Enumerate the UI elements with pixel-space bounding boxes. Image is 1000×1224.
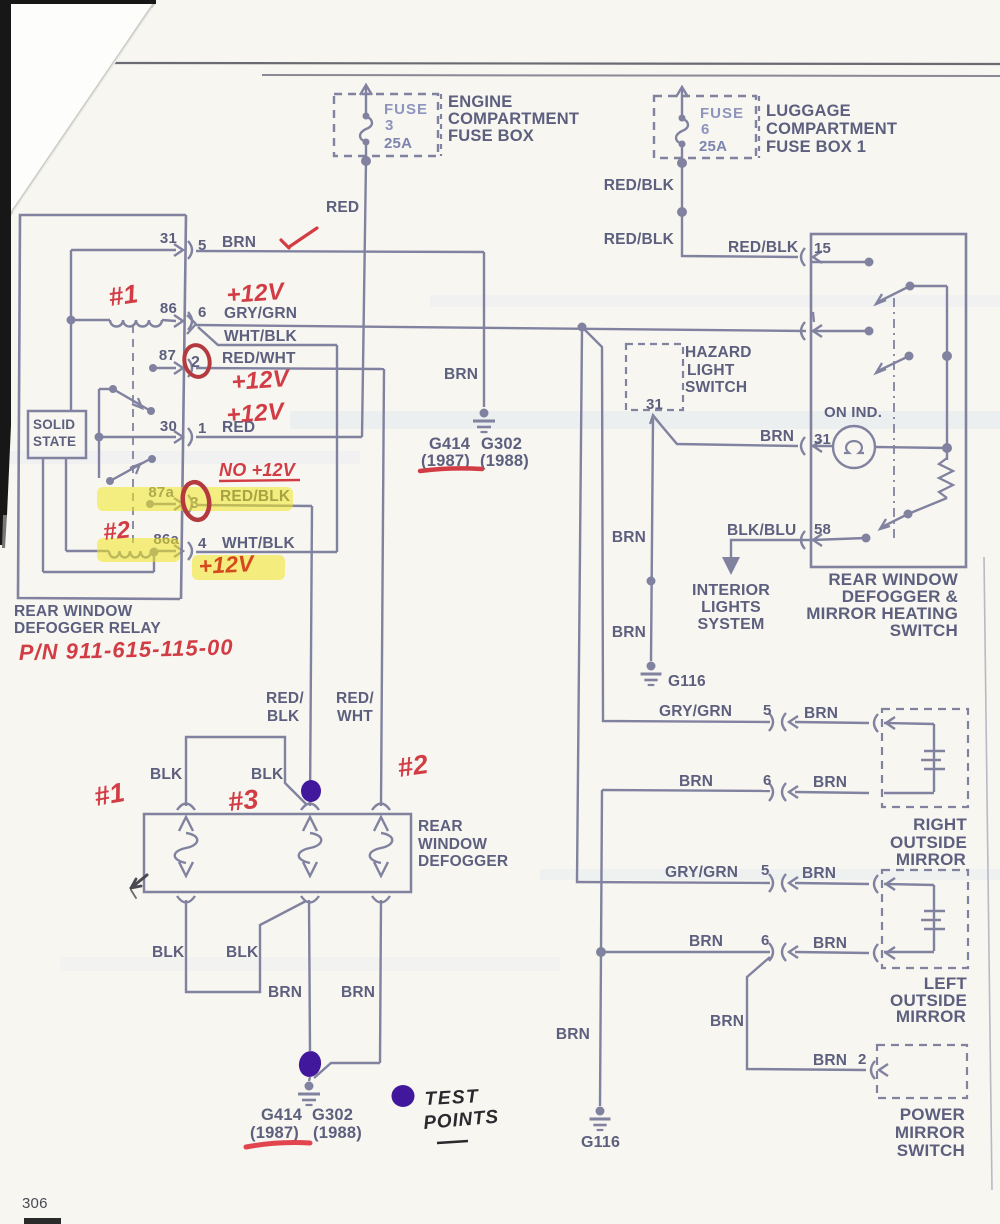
svg-text:WHT/BLK: WHT/BLK — [222, 535, 295, 552]
svg-text:COMPARTMENT: COMPARTMENT — [766, 120, 897, 138]
svg-text:WHT: WHT — [337, 708, 373, 725]
svg-text:25A: 25A — [699, 138, 727, 155]
svg-text:RED/BLK: RED/BLK — [728, 239, 799, 256]
svg-text:FUSE: FUSE — [384, 101, 428, 118]
svg-text:6: 6 — [701, 121, 710, 138]
svg-text:POWER: POWER — [900, 1105, 965, 1124]
svg-text:FUSE: FUSE — [700, 105, 744, 122]
svg-text:6: 6 — [763, 772, 772, 789]
svg-text:SYSTEM: SYSTEM — [698, 616, 765, 633]
svg-text:BLK: BLK — [251, 766, 284, 783]
svg-text:58: 58 — [814, 521, 831, 538]
svg-text:MIRROR: MIRROR — [896, 1007, 966, 1026]
svg-text:31: 31 — [160, 230, 177, 247]
svg-text:BLK: BLK — [267, 708, 300, 725]
svg-text:306: 306 — [22, 1195, 48, 1212]
svg-text:RED/: RED/ — [336, 690, 374, 707]
svg-text:#2: #2 — [396, 749, 430, 783]
svg-text:FUSE BOX: FUSE BOX — [448, 127, 534, 145]
svg-text:4: 4 — [198, 535, 207, 552]
svg-text:WINDOW: WINDOW — [418, 836, 487, 853]
svg-text:BRN: BRN — [802, 865, 836, 882]
svg-text:FUSE BOX 1: FUSE BOX 1 — [766, 138, 866, 156]
svg-text:G116: G116 — [668, 673, 706, 690]
svg-text:BRN: BRN — [679, 773, 713, 790]
svg-text:RED: RED — [326, 199, 359, 216]
svg-text:87: 87 — [159, 347, 176, 364]
svg-text:(1987): (1987) — [250, 1124, 299, 1142]
svg-text:SOLID: SOLID — [33, 417, 75, 432]
svg-text:BRN: BRN — [813, 774, 847, 791]
svg-text:G414: G414 — [261, 1106, 303, 1124]
svg-text:WHT/BLK: WHT/BLK — [224, 328, 297, 345]
svg-text:(1988): (1988) — [313, 1124, 362, 1142]
svg-text:LUGGAGE: LUGGAGE — [766, 102, 851, 120]
svg-text:G302: G302 — [312, 1106, 353, 1124]
svg-text:COMPARTMENT: COMPARTMENT — [448, 110, 579, 128]
svg-text:BRN: BRN — [804, 705, 838, 722]
svg-text:BRN: BRN — [341, 984, 375, 1001]
svg-text:BRN: BRN — [813, 935, 847, 952]
svg-text:NO +12V: NO +12V — [219, 460, 297, 480]
svg-text:#2: #2 — [102, 516, 132, 546]
svg-text:MIRROR: MIRROR — [895, 1123, 965, 1142]
svg-text:RED/BLK: RED/BLK — [604, 231, 675, 248]
svg-text:SWITCH: SWITCH — [890, 621, 958, 640]
svg-text:BRN: BRN — [556, 1026, 590, 1043]
svg-text:BRN: BRN — [689, 933, 723, 950]
svg-text:30: 30 — [160, 418, 177, 435]
svg-text:G302: G302 — [481, 435, 522, 453]
svg-text:31: 31 — [646, 396, 663, 413]
svg-text:15: 15 — [814, 240, 831, 257]
svg-text:+12V: +12V — [226, 278, 287, 309]
svg-text:RED/BLK: RED/BLK — [604, 177, 675, 194]
svg-text:#1: #1 — [92, 777, 127, 812]
svg-text:BRN: BRN — [222, 234, 256, 251]
svg-text:SWITCH: SWITCH — [897, 1141, 965, 1160]
svg-text:+12V: +12V — [226, 398, 287, 429]
svg-text:BLK: BLK — [152, 944, 185, 961]
svg-text:1: 1 — [198, 420, 207, 437]
svg-text:LIGHT: LIGHT — [687, 362, 735, 379]
svg-text:HAZARD: HAZARD — [685, 344, 752, 361]
svg-text:BLK/BLU: BLK/BLU — [727, 522, 796, 539]
svg-text:BRN: BRN — [612, 624, 646, 641]
svg-text:#1: #1 — [107, 278, 140, 312]
svg-text:6: 6 — [198, 304, 207, 321]
svg-text:BRN: BRN — [760, 428, 794, 445]
svg-text:ON IND.: ON IND. — [824, 404, 882, 421]
svg-text:BLK: BLK — [150, 766, 183, 783]
svg-text:BRN: BRN — [444, 366, 478, 383]
svg-text:+12V: +12V — [231, 365, 292, 396]
svg-text:DEFOGGER: DEFOGGER — [418, 853, 508, 870]
svg-text:TEST: TEST — [424, 1086, 480, 1110]
svg-text:BRN: BRN — [268, 984, 302, 1001]
svg-text:GRY/GRN: GRY/GRN — [659, 703, 732, 720]
svg-text:STATE: STATE — [33, 434, 76, 449]
svg-text:DEFOGGER RELAY: DEFOGGER RELAY — [14, 620, 161, 637]
svg-text:25A: 25A — [384, 135, 412, 152]
svg-text:(1988): (1988) — [480, 452, 529, 470]
svg-text:2: 2 — [858, 1051, 867, 1068]
svg-text:MIRROR: MIRROR — [896, 850, 966, 869]
svg-text:INTERIOR: INTERIOR — [692, 582, 770, 599]
svg-text:GRY/GRN: GRY/GRN — [665, 864, 738, 881]
svg-text:5: 5 — [763, 702, 772, 719]
svg-text:BLK: BLK — [226, 944, 259, 961]
svg-text:REAR WINDOW: REAR WINDOW — [14, 603, 133, 620]
svg-text:+12V: +12V — [198, 550, 256, 579]
svg-text:G116: G116 — [581, 1134, 620, 1151]
svg-text:SWITCH: SWITCH — [685, 379, 747, 396]
svg-text:LIGHTS: LIGHTS — [701, 599, 761, 616]
svg-text:#3: #3 — [226, 784, 259, 817]
svg-text:RED/: RED/ — [266, 690, 304, 707]
svg-text:BRN: BRN — [813, 1052, 847, 1069]
svg-text:BRN: BRN — [612, 529, 646, 546]
svg-text:ENGINE: ENGINE — [448, 93, 512, 111]
svg-text:5: 5 — [761, 862, 770, 879]
svg-text:RIGHT: RIGHT — [913, 815, 967, 834]
svg-text:6: 6 — [761, 932, 770, 949]
svg-text:REAR: REAR — [418, 818, 463, 835]
svg-text:86: 86 — [160, 300, 177, 317]
svg-text:3: 3 — [385, 117, 394, 134]
svg-text:G414: G414 — [429, 435, 471, 453]
svg-text:BRN: BRN — [710, 1013, 744, 1030]
